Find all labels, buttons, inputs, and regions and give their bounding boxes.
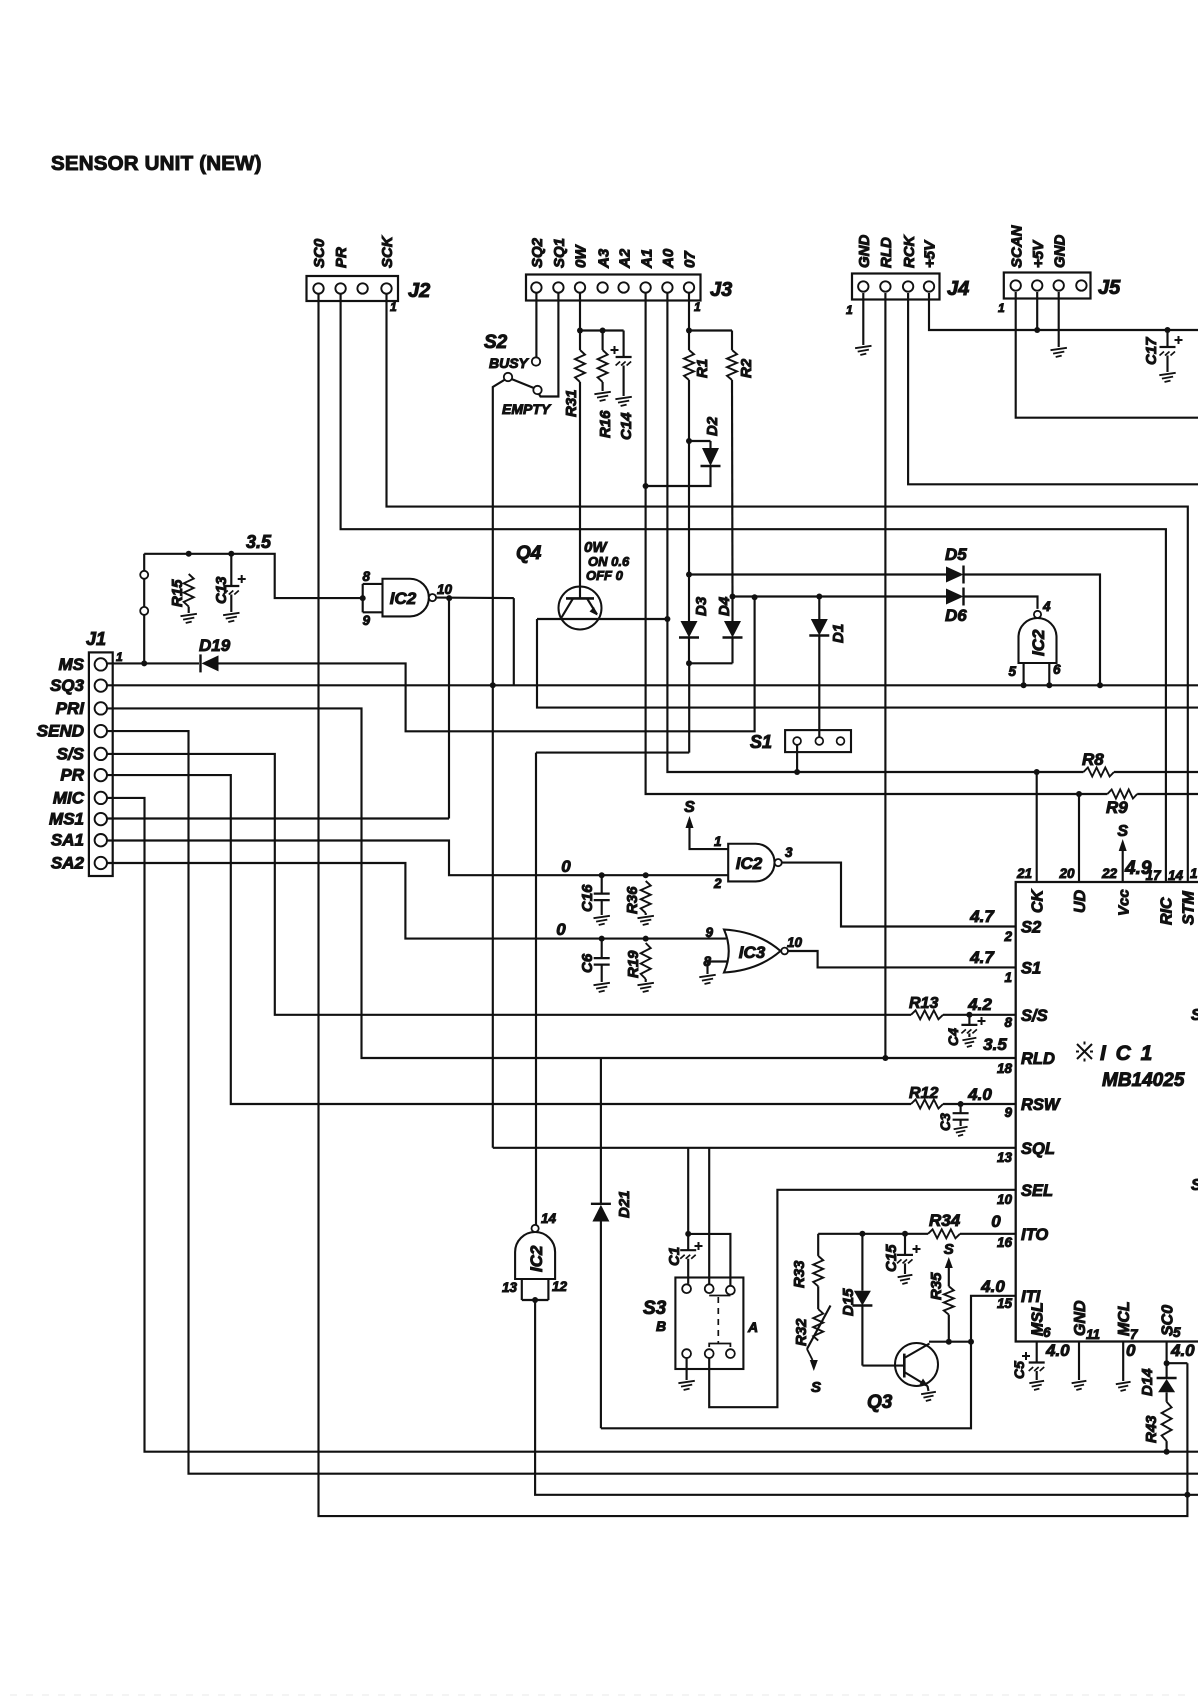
diode D3 [681, 621, 698, 638]
transistor Q3 [895, 1343, 938, 1386]
resistor R31 [575, 350, 585, 382]
resistor R43 [1166, 1392, 1168, 1402]
junction C17 on +5V rail [1165, 327, 1171, 333]
wire 0W junction [579, 293, 581, 350]
svg-text:1: 1 [1004, 970, 1012, 985]
svg-text:0W: 0W [573, 244, 590, 268]
svg-text:1: 1 [390, 300, 397, 314]
junction R43 bottom [1164, 1449, 1170, 1455]
ground R15 [181, 614, 197, 623]
wire CK pin 21 [1036, 772, 1038, 882]
ground IC3 pin8 [699, 975, 715, 984]
wire J4 GND pin to ground [862, 293, 864, 345]
svg-text:D1: D1 [830, 624, 847, 643]
wire IC2A tied inputs [362, 584, 364, 612]
svg-text:D4: D4 [716, 596, 733, 616]
capacitor C6 [601, 939, 603, 959]
wire D1 to S1 [818, 636, 820, 738]
wire MCL pin to ground [1122, 1342, 1124, 1382]
junction CK top [1034, 769, 1040, 775]
svg-text:5: 5 [1173, 1325, 1181, 1340]
svg-text:R15: R15 [169, 579, 186, 607]
transistor Q4 [559, 587, 602, 630]
svg-text:RSW: RSW [1021, 1096, 1061, 1114]
svg-text:S: S [1117, 823, 1128, 840]
wire J5 GND pin to ground [1058, 292, 1060, 347]
svg-text:I C 1: I C 1 [1100, 1042, 1154, 1065]
svg-text:MS1: MS1 [49, 810, 84, 829]
svg-text:4.7: 4.7 [969, 907, 995, 926]
svg-text:11: 11 [1086, 1327, 1100, 1342]
diode D4 [724, 621, 741, 638]
wire J3 A0 vertical to R8 row [667, 293, 1083, 772]
svg-text:ITO: ITO [1021, 1226, 1048, 1244]
wire R31 to Q4 base [579, 382, 581, 598]
svg-text:C3: C3 [937, 1113, 953, 1131]
junction D5 takeoff on 07 line [686, 572, 692, 578]
svg-text:IC2: IC2 [527, 1245, 546, 1272]
svg-text:+5V: +5V [1030, 239, 1047, 268]
svg-text:S: S [684, 799, 695, 816]
wire GND pin to ground [1078, 1342, 1080, 1381]
wire S/S to R13 row [107, 754, 911, 1015]
svg-text:R8: R8 [1082, 750, 1104, 769]
svg-text:R16: R16 [597, 410, 614, 438]
switch S2 [532, 357, 540, 365]
wire +5V rail from J4 to right edge [929, 293, 1198, 330]
svg-text:4.7: 4.7 [969, 948, 995, 967]
svg-text:S1: S1 [1021, 959, 1041, 977]
svg-text:15: 15 [997, 1296, 1013, 1311]
wire IC2A output node down to MS1 [448, 598, 450, 818]
svg-text:IC3: IC3 [739, 943, 766, 962]
wire SA2 to C6 R19 rail [107, 863, 726, 939]
ground S3 [678, 1381, 694, 1390]
svg-text:R35: R35 [928, 1272, 945, 1300]
resistor R13 [911, 1010, 943, 1019]
svg-text:SA1: SA1 [51, 831, 84, 850]
wire J3 A1 vertical to R9 row [646, 293, 1108, 794]
svg-text:C16: C16 [579, 884, 596, 912]
junction IC2A output [446, 595, 452, 601]
junction D3 bottom [686, 660, 692, 666]
svg-text:C4: C4 [945, 1028, 961, 1046]
svg-text:9: 9 [1004, 1105, 1012, 1120]
svg-text:OFF 0: OFF 0 [586, 568, 624, 583]
svg-text:RLD: RLD [878, 237, 895, 268]
capacitor C15 [904, 1234, 906, 1255]
capacitor C17 [1166, 330, 1168, 347]
junction IC2A input [360, 595, 366, 601]
ground C5 [1029, 1381, 1044, 1390]
resistor R33 [813, 1256, 823, 1286]
capacitor C1 [687, 1234, 689, 1250]
svg-text:R2: R2 [738, 358, 755, 378]
wire R1 to D2 and D3 [688, 380, 690, 575]
svg-text:STM: STM [1181, 891, 1198, 925]
junction C13 top [228, 551, 234, 557]
svg-text:0: 0 [561, 857, 571, 876]
diode D19 [199, 654, 201, 672]
svg-text:D3: D3 [693, 596, 710, 616]
svg-text:SQL: SQL [1021, 1140, 1055, 1158]
svg-text:MS: MS [59, 655, 85, 674]
wire MSL pin to C5 [1036, 1342, 1038, 1363]
ground C16 [594, 916, 610, 925]
wire S1 pin1 to R8 row [796, 745, 798, 772]
junction ITI corner [968, 1339, 974, 1345]
junction R35 collector [946, 1339, 952, 1345]
junction S2 pole on SQ3 rail [490, 682, 496, 688]
junction Q4 emitter on A0 [664, 616, 670, 622]
svg-text:A: A [747, 1319, 758, 1335]
wire SC0 branch to riser [1167, 1362, 1188, 1364]
svg-text:4.2: 4.2 [967, 995, 992, 1014]
svg-text:5: 5 [1008, 664, 1016, 679]
svg-text:13: 13 [997, 1150, 1013, 1165]
wire D3 D4 bottoms join [688, 638, 690, 664]
svg-text:21: 21 [1016, 866, 1032, 881]
op-amp gate IC2 pins 13 12 14 [515, 1232, 555, 1279]
wire PRI to RLD row [107, 708, 1016, 1058]
svg-text:1: 1 [714, 834, 722, 849]
junction bottom run with SC0 riser [1184, 1492, 1190, 1498]
wire PR to R12 row [107, 775, 911, 1104]
capacitor C5 [1029, 1361, 1045, 1363]
svg-text:18: 18 [997, 1061, 1013, 1076]
junction C16 on pin2 rail [599, 872, 605, 878]
junction C6 on SA2 rail [599, 936, 605, 942]
wire R2 down to D4 [731, 380, 734, 597]
svg-text:2: 2 [713, 876, 722, 891]
wire J2 SCK to IC1 STM pin 14 [387, 294, 1188, 882]
svg-text:J4: J4 [947, 278, 969, 300]
capacitor C16 [601, 875, 603, 893]
ground J5 pin3 [1051, 348, 1067, 357]
junction IC2D output [532, 1297, 538, 1303]
svg-text:B: B [656, 1318, 666, 1334]
svg-text:D21: D21 [616, 1190, 633, 1218]
svg-text:SA2: SA2 [51, 854, 85, 873]
svg-text:IC2: IC2 [736, 854, 763, 873]
resistor R1 [684, 350, 694, 380]
svg-text:CK: CK [1030, 888, 1047, 913]
ground C15 [898, 1275, 913, 1284]
wire C1 node bypass to S3 top right [688, 1234, 730, 1286]
svg-text:14: 14 [541, 1211, 557, 1226]
connector J4 [852, 274, 940, 300]
wire J3 SQ2 to S2 BUSY contact [535, 293, 537, 358]
svg-text:4.0: 4.0 [980, 1277, 1005, 1296]
jumper link on J1 MS [143, 554, 145, 664]
wire SQL branch to C1 node [687, 1148, 689, 1234]
svg-text:10: 10 [437, 582, 453, 597]
junction D15 top [859, 1231, 865, 1237]
resistor R8 [1084, 768, 1115, 777]
junction IC2B pin5 [1021, 682, 1027, 688]
svg-text:10: 10 [997, 1192, 1013, 1207]
svg-text:0: 0 [991, 1212, 1001, 1231]
junction R36 on pin2 rail [643, 872, 649, 878]
junction R15 top [186, 551, 192, 557]
resistor R12 [911, 1100, 943, 1109]
wire D3 net down to MS net rail [688, 663, 690, 752]
svg-text:C17: C17 [1143, 337, 1160, 365]
junction IC2B pin6 [1046, 682, 1052, 688]
svg-text:8: 8 [362, 569, 370, 584]
wire D2 to A1 line [646, 466, 711, 486]
svg-text:0: 0 [1126, 1341, 1136, 1360]
svg-text:IC2: IC2 [390, 589, 417, 608]
svg-text:1: 1 [116, 650, 123, 664]
wire IC2D pins 13 12 join [521, 1279, 523, 1300]
svg-text:22: 22 [1101, 866, 1118, 881]
svg-text:BUSY: BUSY [489, 355, 530, 371]
wire SEND down and bottom run [107, 731, 1198, 1474]
svg-text:J5: J5 [1098, 277, 1121, 299]
svg-text:PRI: PRI [56, 699, 86, 718]
wire R33 to R32 [817, 1286, 819, 1309]
ground R19 [638, 983, 654, 992]
diode D15 [861, 1234, 863, 1291]
svg-text:A0: A0 [660, 248, 677, 269]
svg-text:C15: C15 [883, 1244, 900, 1272]
resistor R19 [641, 943, 651, 979]
ground C17 [1159, 373, 1175, 382]
svg-text:3.5: 3.5 [246, 532, 272, 552]
connector S1 [785, 730, 851, 752]
wire ITO left corner down to R33 [817, 1234, 819, 1256]
svg-text:D5: D5 [945, 545, 967, 564]
svg-text:9: 9 [705, 925, 713, 940]
junction UD top [1076, 791, 1082, 797]
capacitor C4 [968, 1015, 970, 1025]
connector J2 [307, 276, 399, 301]
wire MIC down and bottom run [107, 798, 1198, 1452]
resistor R2 [731, 331, 733, 351]
resistor R32 variable [813, 1309, 823, 1341]
connector J1 [89, 652, 113, 876]
svg-text:S2: S2 [484, 332, 508, 353]
resistor R36 [641, 881, 651, 913]
svg-text:4.0: 4.0 [967, 1085, 992, 1104]
wire MS1 to IC2 output node [107, 817, 449, 819]
svg-text:4: 4 [1042, 599, 1051, 614]
svg-text:SCK: SCK [379, 235, 396, 268]
svg-text:C5: C5 [1011, 1361, 1027, 1379]
svg-text:6: 6 [1053, 662, 1061, 677]
junction S1 on R8 row [794, 769, 800, 775]
svg-text:RLD: RLD [1021, 1050, 1055, 1068]
ground MCL [1116, 1382, 1131, 1391]
svg-text:17: 17 [1146, 868, 1163, 883]
junction C4 [966, 1012, 972, 1018]
IC IC1 outline [1016, 882, 1198, 1342]
wire 07 node to R2 [689, 329, 732, 331]
junction D6 takeoff [730, 594, 736, 600]
junction R1 D2 node [686, 438, 692, 444]
wire MS to D19 [107, 662, 199, 664]
ground R36 [638, 916, 654, 925]
svg-text:Q4: Q4 [516, 543, 542, 564]
junction C15 top [902, 1231, 908, 1237]
wire Q4 collector emitter rail [537, 618, 667, 620]
wire J5 +5V to +5V rail [1036, 292, 1038, 330]
wire J3 07 node [688, 293, 690, 350]
svg-text:S3: S3 [643, 1298, 667, 1319]
wire SA1 to input rail of IC2 pin 2 [107, 841, 728, 876]
wire SEL to S3 [709, 1190, 1016, 1407]
svg-text:D14: D14 [1139, 1368, 1156, 1396]
junction R16 top [600, 328, 606, 334]
svg-text:S/S: S/S [1021, 1007, 1048, 1025]
svg-text:RIC: RIC [1159, 897, 1176, 925]
svg-text:PR: PR [333, 247, 350, 268]
capacitor C14 [623, 331, 625, 358]
wire D21 bottom run to ITI node [601, 1342, 971, 1429]
wire SC0 pin to D14 [1166, 1342, 1168, 1378]
svg-text:RCK: RCK [901, 234, 918, 268]
wire D19 to MS route [219, 597, 755, 731]
svg-text:1: 1 [1190, 866, 1198, 881]
svg-text:SENSOR UNIT (NEW): SENSOR UNIT (NEW) [51, 152, 262, 175]
svg-text:SC0: SC0 [311, 238, 328, 268]
svg-text:S: S [1191, 1007, 1198, 1024]
svg-text:8: 8 [1004, 1015, 1012, 1030]
wire UD pin 20 [1078, 794, 1080, 882]
wire Q4 left lead down and across to right edge [537, 619, 1198, 708]
wire D5 line [689, 573, 946, 575]
svg-text:10: 10 [787, 935, 803, 950]
svg-text:EMPTY: EMPTY [502, 401, 552, 417]
wire collector rail [929, 1341, 971, 1343]
svg-text:S: S [811, 1379, 821, 1396]
svg-text:R34: R34 [929, 1211, 961, 1230]
diode D21 [600, 1058, 602, 1204]
svg-text:4.0: 4.0 [1170, 1341, 1195, 1360]
junction 0W node [577, 328, 583, 334]
svg-text:13: 13 [502, 1280, 518, 1295]
wire ITO row [818, 1233, 928, 1235]
svg-text:SEL: SEL [1021, 1182, 1053, 1200]
svg-text:J1: J1 [86, 629, 106, 649]
wire IC2D output bottom run to right edge [535, 1300, 1198, 1495]
svg-text:SQ2: SQ2 [529, 237, 546, 268]
wire J4 RCK to right edge [908, 293, 1198, 484]
svg-text:1: 1 [846, 303, 853, 317]
svg-text:3.5: 3.5 [983, 1035, 1007, 1054]
ground J4 pin1 [855, 346, 871, 355]
ground C14 [615, 397, 631, 406]
svg-text:3: 3 [785, 845, 793, 860]
wire J2 PR to IC1 RIC pin 17 [341, 294, 1166, 882]
diode D5 [946, 567, 964, 583]
S3 bridge bottom [709, 1344, 730, 1348]
diode D14 [1157, 1377, 1177, 1379]
resistor R16 [602, 331, 604, 351]
svg-text:Vcc: Vcc [1116, 889, 1133, 916]
S3 dashed divider [717, 1297, 719, 1344]
svg-text:MIC: MIC [53, 788, 85, 807]
svg-text:Q3: Q3 [867, 1392, 893, 1413]
svg-text:1: 1 [998, 301, 1005, 315]
diode D1 [818, 597, 820, 620]
svg-text:SQ3: SQ3 [50, 676, 85, 695]
page bottom scan artifact [10, 1694, 1190, 1696]
wire J5 SCAN to right edge [1016, 292, 1198, 418]
svg-text:SEND: SEND [37, 722, 84, 741]
resistor R15 [184, 574, 194, 607]
svg-text:0: 0 [556, 920, 566, 939]
wire IC2A output [436, 597, 514, 600]
svg-text:SCAN: SCAN [1008, 224, 1025, 268]
svg-text:S/S: S/S [57, 744, 85, 763]
resistor R34 [928, 1229, 960, 1238]
wire SQ3 rail across page [107, 684, 1198, 686]
S3 bridge top [709, 1295, 730, 1297]
svg-text:R13: R13 [909, 995, 938, 1012]
wire 0W node to R16 C14 [580, 329, 624, 331]
op-amp gate IC2 pins 8 9 10 [383, 579, 429, 617]
svg-text:R43: R43 [1143, 1415, 1160, 1443]
ground Q3 [921, 1392, 936, 1401]
wire J3 SQ1 to S2 EMPTY contact [539, 293, 559, 397]
junction D2 return on A1 [643, 483, 649, 489]
ground C6 [594, 983, 610, 992]
wire J2 SC0 long vertical and bottom run [319, 294, 1188, 1516]
svg-text:C1: C1 [666, 1247, 683, 1266]
svg-text:PR: PR [60, 766, 84, 785]
diode D6 [946, 589, 964, 605]
wire D5 to riser [965, 575, 1101, 686]
svg-text:+5V: +5V [922, 239, 939, 268]
svg-text:S: S [944, 1241, 954, 1258]
wire 3.5 rail [144, 553, 231, 555]
switch S3 box [675, 1278, 743, 1370]
junction R19 on SA2 rail [643, 936, 649, 942]
capacitor C13 [230, 554, 232, 586]
connector J5 [1004, 273, 1091, 299]
op-amp gate IC2 pins 1 2 3 [728, 844, 774, 882]
ground C3 [954, 1127, 968, 1136]
svg-text:S1: S1 [750, 732, 772, 752]
svg-text:R19: R19 [625, 950, 642, 978]
svg-text:R1: R1 [694, 359, 711, 378]
svg-text:A2: A2 [616, 248, 633, 269]
svg-text:S: S [1191, 1177, 1198, 1194]
junction 07 node [686, 328, 692, 334]
svg-text:A1: A1 [638, 249, 655, 269]
svg-text:4.0: 4.0 [1045, 1341, 1070, 1360]
wire D4 top [731, 597, 733, 622]
svg-text:J3: J3 [710, 279, 732, 301]
wire 07 to D3 [688, 575, 690, 622]
ground C13 [223, 613, 239, 622]
svg-text:C13: C13 [213, 576, 230, 604]
op-amp gate IC2 pins 4 5 6 [1019, 618, 1057, 663]
connector J3 [526, 275, 701, 301]
svg-text:R9: R9 [1106, 798, 1128, 817]
wire D6 line [733, 595, 947, 597]
svg-text:ON 0.6: ON 0.6 [588, 554, 630, 569]
svg-text:12: 12 [552, 1279, 568, 1294]
resistor R9 [1107, 790, 1137, 799]
wire IC3 output to IC1 S1 [788, 951, 1016, 967]
svg-text:D19: D19 [199, 636, 231, 655]
svg-text:2: 2 [1003, 929, 1012, 944]
svg-text:A3: A3 [595, 248, 612, 269]
svg-text:9: 9 [362, 613, 370, 628]
